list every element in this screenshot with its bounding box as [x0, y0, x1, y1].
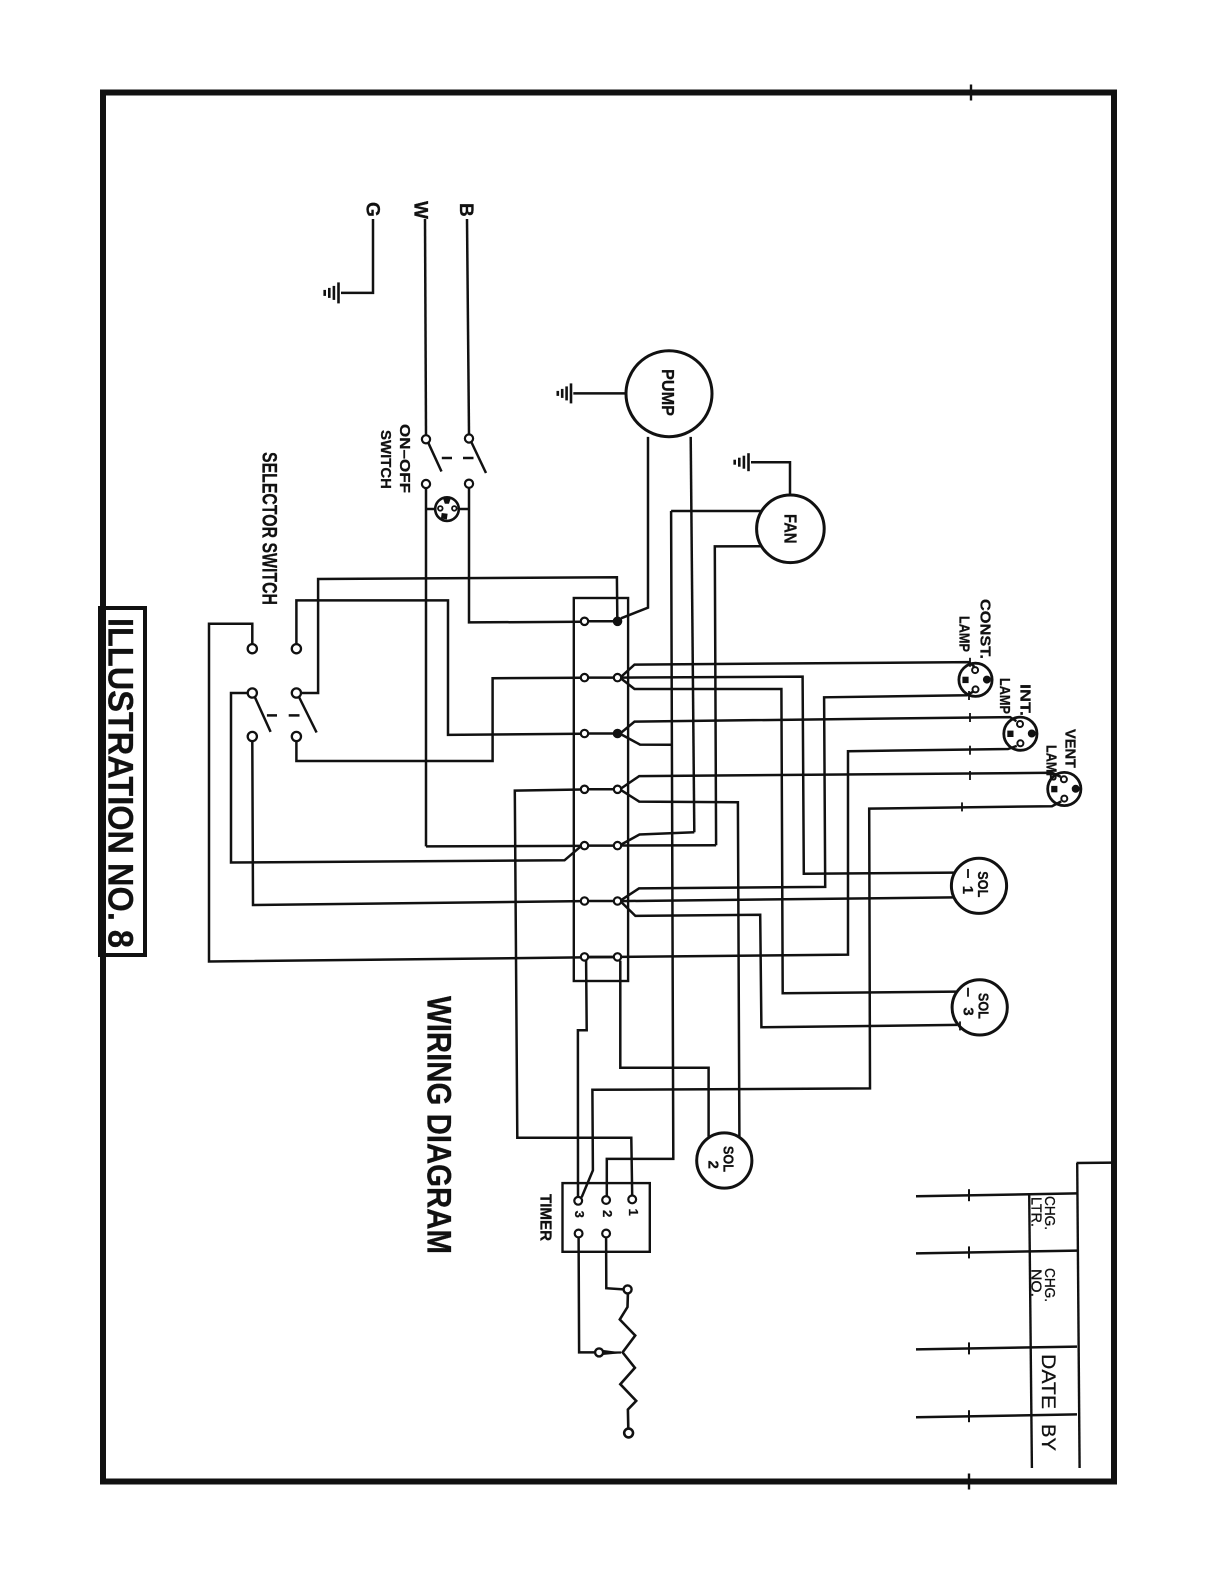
timer box	[563, 1183, 650, 1252]
ground at fan	[735, 453, 790, 495]
on-off switch pole 1 terminals	[422, 435, 430, 488]
wire fan lower lead	[715, 546, 761, 845]
wire strip bottom left to timer T3	[578, 961, 587, 1197]
svg-text:3: 3	[572, 1211, 587, 1218]
drawing border frame	[103, 85, 1114, 1490]
svg-text:LAMP: LAMP	[1043, 745, 1060, 781]
label CHG. NO.	[1028, 1268, 1059, 1302]
label CHG. LTR.	[1028, 1196, 1059, 1230]
svg-text:PUMP: PUMP	[658, 369, 678, 416]
wire W below switch	[425, 488, 428, 846]
wire row4 up to VENT lamp	[621, 771, 1061, 788]
selector switch terminals	[248, 644, 301, 741]
svg-text:LTR.: LTR.	[1028, 1197, 1045, 1227]
wire B below switch	[469, 488, 581, 623]
svg-text:INT.: INT.	[1017, 684, 1034, 716]
wire row7 to INT lamp	[621, 746, 1017, 957]
wire row2 down to SOL3	[621, 679, 968, 997]
label W	[410, 201, 431, 219]
wire timer to resistor	[606, 1237, 623, 1289]
svg-text:1: 1	[959, 886, 976, 894]
label ON-OFF SWITCH	[377, 424, 413, 493]
wire W lead	[425, 219, 426, 435]
label PUMP	[658, 369, 678, 416]
label TIMER	[536, 1194, 553, 1241]
wire strip bottom right to SOL2 left	[620, 961, 708, 1137]
solenoid SOL 3	[952, 980, 1007, 1035]
label SELECTOR SWITCH	[258, 452, 281, 605]
svg-text:CONST.: CONST.	[977, 599, 994, 659]
svg-text:TIMER: TIMER	[536, 1194, 553, 1241]
title text ILLUSTRATION NO. 8	[101, 618, 140, 948]
timer bottom terminal b	[602, 1230, 610, 1238]
wire row4 down to SOL2 right	[621, 790, 739, 1137]
label VENT LAMP	[1043, 729, 1079, 781]
title block divider 2	[916, 1246, 1077, 1258]
svg-text:2: 2	[600, 1210, 615, 1217]
wire strip row7 line	[588, 956, 614, 959]
timer bottom terminal a	[575, 1230, 583, 1238]
svg-text:LAMP: LAMP	[996, 678, 1013, 714]
resistor element	[620, 1294, 636, 1429]
title box ILLUSTRATION NO. 8	[100, 608, 145, 955]
title block divider 4	[916, 1410, 1077, 1422]
label WIRING DIAGRAM	[420, 996, 458, 1254]
timer terminal 3	[572, 1197, 587, 1218]
timer terminal 2	[600, 1196, 615, 1217]
label DATE	[1037, 1354, 1058, 1409]
wire fan upper lead / T2 trunk	[607, 511, 761, 1196]
solenoid SOL 2	[697, 1133, 752, 1188]
wire row2 mid to SOL1	[621, 677, 968, 878]
title block divider 3	[916, 1342, 1077, 1354]
wire B lead	[467, 219, 469, 434]
svg-text:VENT: VENT	[1061, 729, 1078, 768]
svg-text:LAMP: LAMP	[955, 616, 972, 652]
wire timer to wiper	[579, 1237, 595, 1352]
wire timer T3 to VENT lamp bottom trunk	[582, 801, 1062, 1197]
svg-text:2: 2	[704, 1161, 721, 1169]
label B	[455, 203, 476, 217]
resistor top terminal	[624, 1285, 632, 1293]
label INT. LAMP	[996, 678, 1034, 716]
wire C1 to strip row7	[209, 624, 581, 962]
terminal strip terminals	[581, 618, 621, 961]
svg-text:BY: BY	[1037, 1424, 1058, 1451]
svg-text:WIRING DIAGRAM: WIRING DIAGRAM	[420, 996, 458, 1254]
label G	[362, 202, 383, 217]
title block divider 1	[916, 1189, 1077, 1201]
ground G	[325, 282, 339, 303]
svg-text:B: B	[455, 203, 476, 217]
wire G lead	[341, 219, 373, 293]
on-off switch pole 2 arm	[463, 442, 486, 473]
wire row3 up to INT lamp	[621, 713, 1016, 733]
resistor bottom terminal	[624, 1429, 633, 1438]
wire pump left lead to row1	[621, 437, 648, 618]
INT lamp	[1004, 717, 1037, 750]
terminal strip box	[574, 598, 628, 981]
wire C2 to strip row3	[296, 600, 581, 735]
wire C4 to strip row1	[301, 577, 617, 693]
svg-text:NO.: NO.	[1028, 1269, 1045, 1297]
on-off switch pole 2 terminals	[465, 434, 473, 487]
title block inner column	[1077, 1163, 1115, 1468]
label CONST. LAMP	[955, 599, 993, 659]
svg-text:SWITCH: SWITCH	[377, 430, 394, 489]
svg-text:W: W	[410, 201, 431, 219]
svg-text:DATE: DATE	[1037, 1354, 1058, 1409]
solenoid SOL 1	[951, 858, 1006, 913]
terminal strip row links	[589, 621, 614, 957]
selector switch arm a	[255, 697, 277, 732]
wire row2 up to CONST lamp	[621, 658, 974, 677]
connector plug symbol	[426, 497, 469, 521]
svg-text:SELECTOR SWITCH: SELECTOR SWITCH	[258, 452, 281, 605]
wire row3 fan down to T2 trunk	[621, 734, 672, 744]
wire C3 to strip row5	[231, 693, 581, 863]
pump motor circle	[626, 351, 712, 437]
svg-text:3: 3	[960, 1007, 977, 1015]
title block label column line	[1029, 1195, 1032, 1469]
label BY	[1037, 1424, 1058, 1451]
svg-text:ON–OFF: ON–OFF	[396, 424, 413, 493]
wire C5 to strip row6	[252, 741, 581, 905]
svg-text:1: 1	[626, 1209, 641, 1216]
wire C6 to strip row2	[296, 678, 581, 761]
svg-text:FAN: FAN	[781, 514, 801, 544]
label FAN	[781, 514, 801, 544]
wire row6 up to CONST lamp bottom	[621, 691, 973, 900]
fan motor circle	[757, 495, 825, 563]
wire W to strip row5 (row5 left feed)	[426, 845, 581, 848]
wiper terminal and arm	[595, 1348, 621, 1356]
svg-text:G: G	[362, 202, 383, 217]
ground at pump	[558, 383, 626, 403]
svg-text:ILLUSTRATION NO. 8: ILLUSTRATION NO. 8	[101, 618, 140, 948]
wire row5 fan up to pump right lead	[621, 832, 694, 844]
selector switch arm b	[289, 697, 317, 733]
wire row6 mid to SOL1 bottom	[621, 897, 954, 901]
CONST lamp	[959, 663, 992, 696]
wire strip row5 through to fan	[621, 844, 716, 847]
timer terminal 1	[626, 1196, 641, 1216]
wire row4 left to timer T1	[515, 790, 632, 1197]
VENT lamp	[1048, 772, 1081, 805]
on-off switch pole 1 arm	[428, 443, 452, 472]
wire row6 down to SOL3 bottom	[621, 902, 960, 1030]
wire pump right lead	[691, 437, 695, 832]
